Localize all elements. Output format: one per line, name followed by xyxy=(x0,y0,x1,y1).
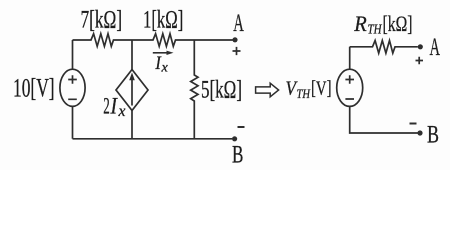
svg-text:10[V]: 10[V] xyxy=(13,74,55,103)
svg-text:B: B xyxy=(427,122,439,149)
svg-text:1[kΩ]: 1[kΩ] xyxy=(143,6,183,33)
svg-text:7[kΩ]: 7[kΩ] xyxy=(81,6,123,33)
svg-text:TH: TH xyxy=(368,23,383,38)
svg-text:A: A xyxy=(233,10,244,37)
svg-text:R: R xyxy=(353,11,367,36)
svg-text:5[kΩ]: 5[kΩ] xyxy=(201,76,242,103)
svg-text:TH: TH xyxy=(297,86,311,101)
svg-text:I: I xyxy=(110,93,118,118)
svg-text:[kΩ]: [kΩ] xyxy=(383,11,413,36)
svg-text:A: A xyxy=(430,34,441,61)
svg-text:x: x xyxy=(160,60,168,75)
svg-text:2: 2 xyxy=(103,93,110,118)
svg-text:[V]: [V] xyxy=(311,78,332,100)
svg-text:x: x xyxy=(118,103,126,120)
svg-text:B: B xyxy=(232,142,243,169)
